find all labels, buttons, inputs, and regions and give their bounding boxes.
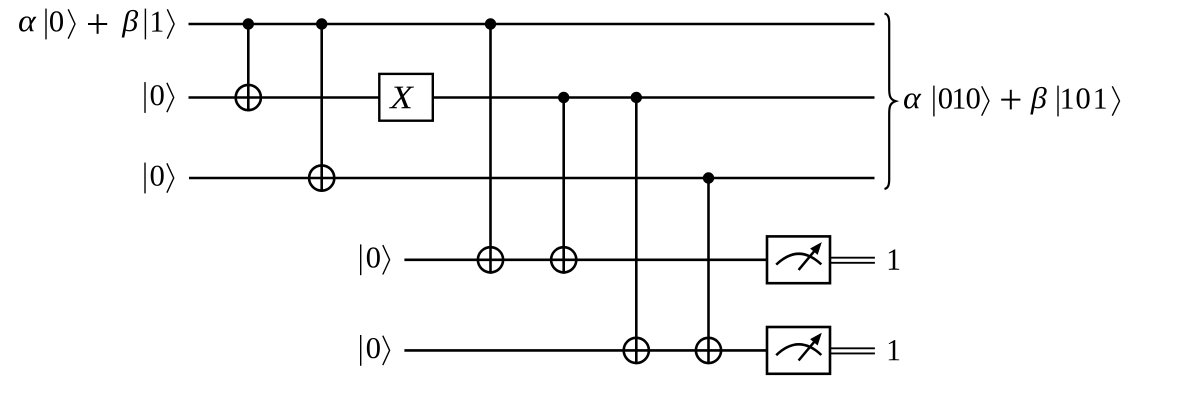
label |0> on q3 (145, 163, 174, 194)
control dot 6 (703, 172, 714, 183)
label output state alpha|010>+beta|101> (904, 86, 1120, 117)
wire vertical control line 6 (707, 178, 710, 364)
classical double wire from M2 (830, 347, 875, 349)
CNOT target 6 (696, 338, 721, 363)
wire q2 (189, 96, 875, 99)
control dot 3 (485, 18, 496, 29)
wire q1 (189, 23, 875, 26)
wire q4 (404, 258, 767, 261)
label |0> on q2 (145, 82, 174, 113)
CNOT target 2 (309, 165, 334, 190)
brace grouping q1-q3 (885, 14, 896, 190)
CNOT target 5 (624, 338, 649, 363)
wire vertical control line 3 (489, 24, 492, 274)
wire vertical control line 4 (562, 98, 565, 274)
result label 1 for M2 (889, 340, 899, 360)
label |0> on q5 (361, 335, 390, 366)
CNOT target 1 (236, 85, 261, 110)
measurement meter M2 (767, 327, 830, 374)
control dot 5 (631, 92, 642, 103)
CNOT target 3 (478, 247, 503, 272)
classical double wire from M1 (830, 257, 875, 259)
result label 1 for M1 (889, 249, 899, 269)
wire vertical control line 2 (320, 24, 323, 192)
label input state alpha|0>+beta|1> on q1 (19, 9, 174, 40)
gate X on q2 (379, 74, 433, 121)
CNOT target 4 (551, 247, 576, 272)
wire q3 (189, 177, 875, 180)
wire vertical control line 5 (635, 98, 638, 365)
measurement meter M1 (767, 236, 830, 283)
wire vertical control line 1 (247, 24, 250, 111)
control dot 1 (243, 18, 254, 29)
label |0> on q4 (361, 244, 390, 275)
control dot 2 (316, 18, 327, 29)
wire q5 (404, 349, 767, 352)
control dot 4 (558, 92, 569, 103)
